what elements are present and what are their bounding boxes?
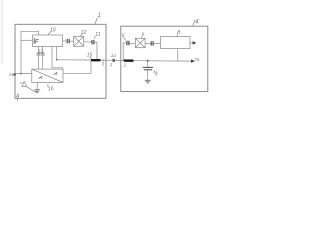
- capacitor 13 plates b: [41, 53, 45, 55]
- svg-text:4: 4: [195, 20, 199, 26]
- svg-text:9: 9: [155, 72, 158, 78]
- right module box: [121, 26, 208, 91]
- wire feedback left horizontal into box10: [21, 39, 33, 41]
- ground right box: [145, 80, 151, 83]
- corner glyph tail: [16, 98, 18, 101]
- mixer 12: [74, 36, 84, 46]
- amplifier mark upper-right: [54, 72, 58, 74]
- svg-text:16: 16: [48, 86, 55, 93]
- capacitor series (box10-mixer): [67, 39, 69, 43]
- mixer 5: [135, 38, 145, 47]
- capacitor 13 plates a: [37, 53, 41, 55]
- triangle symbol A: [22, 82, 27, 87]
- amplifier diagonal: [32, 69, 63, 82]
- node main line start: [56, 59, 58, 61]
- wire capacitor to mixer 12: [70, 40, 74, 42]
- label 8 leader: [177, 34, 178, 36]
- main line inside right box: [134, 60, 192, 62]
- svg-text:1a: 1a: [111, 53, 117, 58]
- label 16 leader: [47, 85, 50, 88]
- label 10 leader: [48, 32, 50, 35]
- main line thin (inside left box): [57, 59, 91, 61]
- wire capacitor to filter box: [154, 43, 161, 45]
- svg-text:6: 6: [142, 32, 145, 37]
- triangle baseline: [19, 82, 22, 84]
- drop from filter box bottom: [177, 49, 179, 61]
- terminal tick on box edge: [13, 74, 15, 76]
- crystal box 10: [33, 35, 63, 47]
- wire to mixer 5: [130, 42, 136, 44]
- wire top drop into box10: [38, 31, 40, 35]
- node capacitor 9 junction: [147, 60, 149, 62]
- svg-text:1: 1: [98, 13, 101, 19]
- wire box10 to capacitor: [63, 40, 67, 42]
- capacitor 13 wire b: [42, 47, 44, 69]
- amp output wire: [63, 60, 91, 73]
- label 11 leader: [94, 36, 95, 39]
- wire mixer to capacitor: [145, 43, 150, 45]
- scan artifact left edge line: [1, 0, 3, 64]
- capacitor 13 wire a: [38, 47, 40, 69]
- output arrow filter: [190, 42, 193, 44]
- amplifier box 16: [32, 69, 63, 82]
- capacitor 9 stem top: [147, 61, 149, 67]
- svg-text:12: 12: [81, 30, 87, 36]
- riser to converter chain: [123, 43, 126, 61]
- ground below amplifier: [36, 83, 38, 90]
- amp input wire: [14, 73, 32, 75]
- label 9 leader: [153, 70, 156, 73]
- svg-text:14: 14: [9, 72, 14, 77]
- left module box: [15, 24, 106, 98]
- label 4 leader: [193, 20, 196, 26]
- label 12 leader: [81, 34, 83, 36]
- arrow main line output: [191, 59, 195, 62]
- capacitor series right box a: [127, 41, 129, 45]
- wire box10 bottom to amp top right: [52, 47, 63, 69]
- label 5 leader: [124, 38, 126, 41]
- capacitor 9 plates: [143, 67, 153, 69]
- label 15 leader: [90, 57, 91, 59]
- svg-text:1: 1: [110, 62, 113, 67]
- break mark on line: [113, 59, 115, 62]
- filter box 8: [161, 37, 191, 49]
- main line thin to right box: [101, 59, 124, 61]
- svg-text:15: 15: [87, 52, 93, 58]
- capacitor 11: [92, 40, 94, 45]
- capacitor 9 stem bottom: [147, 70, 149, 80]
- cable segment 2 (thick): [124, 59, 134, 62]
- svg-text:5: 5: [122, 33, 125, 39]
- label 1 leader: [95, 18, 98, 26]
- wire feedback top horizontal: [21, 30, 39, 32]
- crystal symbol F: [33, 38, 35, 44]
- svg-text:10: 10: [50, 27, 56, 33]
- amplifier mark lower-left: [39, 76, 43, 78]
- wire drop to main line: [96, 42, 98, 60]
- cable segment 15 (thick): [91, 59, 101, 61]
- tick leader 3: [102, 59, 104, 62]
- svg-text:2: 2: [123, 63, 127, 68]
- node amp input: [20, 73, 22, 75]
- svg-text:F: F: [35, 39, 40, 46]
- wire mixer to capacitor 11: [84, 41, 92, 43]
- label 6 leader: [141, 36, 144, 38]
- diagonal lead to ground: [27, 87, 37, 93]
- wire box10 bottom to main line start: [56, 47, 58, 60]
- capacitor series right box b: [151, 41, 153, 45]
- svg-text:7a: 7a: [194, 57, 200, 62]
- svg-text:11: 11: [95, 32, 100, 38]
- svg-text:3: 3: [102, 62, 105, 67]
- svg-text:8: 8: [177, 30, 180, 36]
- wire capacitor 11 to corner: [95, 41, 97, 43]
- wire feedback vertical: [20, 31, 22, 73]
- svg-text:13: 13: [38, 48, 43, 53]
